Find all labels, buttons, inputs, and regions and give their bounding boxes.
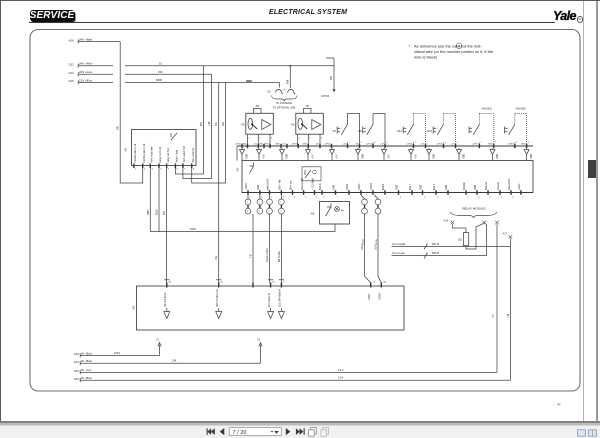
svg-text:2/10: 2/10 (74, 369, 80, 373)
svg-text:Coil/line wire 2-18: Coil/line wire 2-18 (143, 143, 146, 163)
svg-text:Coil/line wire 2-18: Coil/line wire 2-18 (134, 143, 137, 163)
svg-text:CAN L: CAN L (358, 183, 361, 190)
svg-text:2: 2 (427, 142, 429, 144)
svg-text:20: 20 (221, 282, 224, 284)
terminal pair at 259.9 (257, 195, 263, 214)
pins row1 (235, 144, 527, 149)
svg-text:+UF18: +UF18 (507, 144, 514, 146)
svg-text:2T: 2T (373, 282, 376, 284)
pins row2 labels (246, 178, 521, 190)
svg-text:+5V: +5V (263, 154, 265, 159)
border frame (30, 30, 580, 392)
svg-text:30d: 30d (216, 121, 218, 126)
svg-text:4: 4 (528, 142, 530, 144)
svg-text:4/16: 4/16 (74, 377, 80, 381)
svg-text:+24 M: +24 M (246, 183, 248, 190)
svg-text:CR7 Lift block: CR7 Lift block (164, 292, 167, 307)
node 12V +Enc (69, 78, 114, 84)
pin A3 30 (164, 280, 172, 307)
svg-text:4: 4 (294, 197, 296, 199)
svg-text:1: 1 (350, 197, 352, 199)
svg-text:6808: 6808 (246, 79, 252, 83)
svg-text:+5V: +5V (315, 144, 319, 146)
svg-text:163 A: 163 A (375, 239, 378, 245)
switch Y2 (504, 106, 526, 146)
svg-text:1: 1 (135, 169, 137, 171)
svg-text:70E: 70E (216, 255, 218, 260)
svg-text:Batt B: Batt B (382, 183, 385, 190)
svg-text:X: X (458, 44, 460, 48)
svg-text:+UF14: +UF14 (366, 144, 373, 146)
terminal pair CAN at 378 (375, 195, 381, 245)
svg-text:GND: GND (497, 153, 499, 158)
wire output bus row2 (242, 192, 533, 194)
buffer amp at 492.5 (490, 148, 499, 160)
svg-text:7: 7 (271, 197, 273, 199)
switch module A4 (310, 202, 350, 225)
svg-text:4: 4 (478, 197, 480, 199)
svg-text:Batt 2: Batt 2 (433, 183, 436, 190)
svg-text:+ 2-18 [bat]: + 2-18 [bat] (312, 178, 315, 190)
wire rev drop to A1 pin6 (175, 66, 203, 174)
svg-text:54B0: 54B0 (148, 209, 150, 215)
contactor S6 (290, 113, 323, 134)
wire CR7 lift block (252, 214, 254, 283)
svg-text:Mtr (rev42): Mtr (rev42) (278, 251, 281, 262)
svg-text:1: 1 (501, 197, 503, 199)
svg-text:-A2: -A2 (236, 167, 240, 172)
svg-text:GND: GND (475, 185, 477, 190)
wire mtr return (280, 214, 282, 283)
svg-text:7: 7 (184, 169, 186, 171)
pin A3 2A (379, 281, 387, 301)
svg-text:batt/out NC: batt/out NC (508, 178, 511, 190)
svg-text:7: 7 (337, 197, 339, 199)
pin A3 16 (268, 280, 276, 307)
svg-text:Horn +batt wire: Horn +batt wire (151, 146, 154, 163)
svg-text:2: 2 (268, 211, 270, 213)
svg-text:4: 4 (261, 197, 263, 199)
wire CAN L (365, 214, 371, 283)
contactor S5 (240, 113, 273, 134)
svg-text:vidual wire (or the number pri: vidual wire (or the number printed on it… (414, 49, 494, 54)
switch S7 (332, 113, 360, 146)
svg-text:-S8: -S8 (357, 129, 362, 133)
svg-text:7: 7 (449, 197, 451, 199)
svg-text:24C: 24C (118, 125, 120, 130)
svg-text:7: 7 (374, 197, 376, 199)
buffer amp at 429 (427, 148, 436, 160)
svg-text:+5V: +5V (451, 144, 455, 146)
wire 6808 (125, 78, 279, 88)
svg-text:+UF13: +UF13 (324, 144, 331, 146)
svg-text:+24 in: +24 in (519, 183, 521, 190)
switch Y1 (469, 106, 494, 146)
svg-text:30E: 30E (223, 121, 225, 126)
svg-text:15C: 15C (158, 70, 163, 74)
wire bus to battery minus (batt) (510, 239, 512, 380)
svg-text:Batt In: Batt In (319, 183, 322, 190)
svg-text:4: 4 (400, 197, 402, 199)
svg-text:batt/out NC: batt/out NC (267, 178, 270, 190)
pins S6 (298, 134, 324, 146)
output driver at 281.4 (278, 308, 284, 319)
svg-text:D12 CR4+Batt lift: D12 CR4+Batt lift (279, 289, 282, 307)
wire A1 pin5 to A3 (D30) (166, 168, 168, 283)
svg-text:m: m (256, 104, 259, 108)
svg-text:6808: 6808 (156, 78, 162, 82)
pins A1 (134, 164, 195, 171)
svg-text:GND: GND (531, 153, 533, 158)
svg-text:4/16: 4/16 (69, 79, 75, 83)
svg-text:CAN H: CAN H (370, 183, 373, 190)
svg-text:GND: GND (334, 185, 336, 190)
svg-text:1: 1 (280, 202, 282, 204)
svg-text:GND: GND (362, 153, 364, 158)
svg-text:-S6: -S6 (290, 123, 295, 127)
connector X2 to console (267, 89, 296, 94)
svg-text:0V -Batt: 0V -Batt (81, 376, 92, 380)
svg-text:GND: GND (397, 185, 399, 190)
svg-text:19-C: 19-C (338, 368, 344, 372)
svg-text:CR8 Throttle lock: CR8 Throttle lock (216, 288, 219, 307)
svg-text:3: 3 (152, 169, 154, 171)
svg-text:+5V: +5V (388, 154, 390, 159)
svg-text:2: 2 (259, 138, 261, 140)
svg-text:Relay + batt: Relay + batt (176, 150, 179, 163)
svg-text:CR8 + Mtr: CR8 + Mtr (279, 179, 282, 190)
svg-text:Horn switch NO: Horn switch NO (183, 146, 186, 163)
svg-text:2/12: 2/12 (74, 360, 80, 364)
wire drop to console hook2 (289, 66, 291, 88)
svg-text:4/16: 4/16 (74, 352, 80, 356)
wire Com High (392, 242, 511, 250)
brace console (272, 96, 298, 102)
svg-text:*: * (409, 44, 411, 49)
svg-text:0V -Aux: 0V -Aux (81, 368, 92, 372)
svg-text:+UF17: +UF17 (472, 144, 479, 146)
connector C2 riser (257, 339, 262, 364)
terminal pair at 248 (245, 195, 251, 214)
svg-text:2/12: 2/12 (69, 71, 75, 75)
svg-text:16: 16 (272, 282, 275, 284)
wire aux drop to A1 pin7 (183, 74, 212, 178)
svg-text:+UF11: +UF11 (263, 144, 270, 146)
svg-text:2: 2 (144, 169, 146, 171)
wire 15C (125, 70, 212, 75)
wire Com Low rise (484, 223, 486, 256)
svg-text:Horn +batt sw: Horn +batt sw (192, 148, 195, 163)
svg-text:-A3: -A3 (132, 305, 136, 310)
svg-text:CAN H: CAN H (379, 293, 382, 300)
svg-text:12V +Enc: 12V +Enc (79, 78, 93, 82)
svg-text:Com High: Com High (392, 242, 406, 246)
svg-text:0V -Batt: 0V -Batt (81, 351, 92, 355)
svg-text:13-4: 13-4 (338, 376, 344, 380)
svg-text:+5V: +5V (380, 144, 384, 146)
svg-text:+5V: +5V (312, 154, 314, 159)
buffer amp at 242 (240, 148, 249, 160)
svg-text:Relay out B-A: Relay out B-A (167, 148, 170, 163)
svg-text:+UF12: +UF12 (291, 144, 298, 146)
svg-text:166 A: 166 A (362, 239, 365, 245)
svg-text:3: 3 (516, 142, 518, 144)
svg-text:1: 1 (249, 138, 251, 140)
svg-text:7 / 20: 7 / 20 (233, 430, 247, 436)
node 0V -Batt (4) (74, 376, 511, 382)
buffer amp at 384 (382, 148, 391, 160)
svg-text:+5V: +5V (253, 144, 257, 146)
svg-text:1: 1 (249, 197, 251, 199)
output driver at 218.7 (216, 308, 222, 319)
svg-text:1: 1 (316, 197, 318, 199)
svg-text:1: 1 (386, 197, 388, 199)
svg-text:VALVES: VALVES (482, 106, 492, 110)
svg-text:1: 1 (481, 142, 483, 144)
svg-text:2A: 2A (383, 281, 386, 284)
buffer amp at 282 (280, 148, 289, 160)
svg-text:-X2: -X2 (267, 90, 272, 94)
svg-text:0B: 0B (356, 144, 359, 146)
svg-text:3: 3 (374, 142, 376, 144)
svg-text:GND: GND (421, 185, 423, 190)
svg-text:UPS B: UPS B (321, 94, 329, 98)
svg-text:1: 1 (259, 202, 261, 204)
svg-text:5: 5 (168, 169, 170, 171)
svg-text:10: 10 (159, 61, 162, 65)
wire input bus row1 (237, 145, 533, 147)
svg-text:2: 2 (361, 142, 363, 144)
svg-text:6: 6 (177, 169, 179, 171)
switch S13 (426, 113, 455, 146)
note: wire colour reference (409, 43, 494, 59)
svg-text:7: 7 (522, 197, 524, 199)
svg-text:3: 3 (445, 142, 447, 144)
svg-text:-X17: -X17 (502, 233, 508, 236)
svg-text:CAN L: CAN L (368, 293, 371, 300)
junctions row1 (247, 142, 530, 147)
svg-text:1: 1 (467, 197, 469, 199)
node UPS B probe (321, 58, 336, 98)
svg-text:+5V: +5V (282, 144, 286, 146)
node 0V -Batt (1) (74, 351, 160, 357)
wire enc drop (30d) (218, 83, 220, 284)
svg-text:24V +Aux: 24V +Aux (79, 70, 93, 74)
svg-text:+5V: +5V (336, 154, 338, 159)
svg-text:SPARE: SPARE (463, 182, 466, 190)
svg-text:Ag: Ag (341, 209, 344, 212)
node 24V +Batt (69, 37, 121, 43)
svg-text:7: 7 (413, 197, 415, 199)
pins S5 (248, 134, 274, 146)
svg-text:1: 1 (283, 197, 285, 199)
node 24V +Rev (69, 62, 114, 68)
wire 54B0 (149, 168, 151, 232)
svg-text:1 Bk: 1 Bk (209, 121, 211, 126)
terminal pair at 281.4 (279, 195, 285, 214)
connector X17 pin (502, 233, 512, 239)
svg-text:3: 3 (321, 138, 323, 140)
wire Com Low (392, 251, 487, 259)
svg-text:4: 4 (160, 169, 162, 171)
output driver at 166.8 (164, 308, 170, 319)
buffer amp at 526.6 (524, 148, 533, 160)
svg-text:Batt/out: Batt/out (485, 182, 488, 190)
svg-text:-S7: -S7 (332, 129, 337, 133)
svg-text:C1: C1 (156, 339, 160, 342)
motor m above S6 (304, 104, 312, 113)
svg-text:4/16: 4/16 (69, 38, 75, 42)
svg-text:GND: GND (433, 153, 435, 158)
svg-text:24V +Batt: 24V +Batt (79, 37, 92, 41)
svg-text:2: 2 (247, 211, 249, 213)
svg-text:9: 9 (283, 282, 285, 284)
svg-text:+5V: +5V (415, 154, 417, 159)
motor m above S5 (254, 104, 262, 113)
svg-text:2: 2 (495, 142, 497, 144)
svg-text:6D1: 6D1 (201, 121, 203, 126)
svg-text:901-B: 901-B (432, 242, 439, 246)
svg-text:D10 Safety in: D10 Safety in (268, 292, 271, 307)
svg-text:302: 302 (458, 239, 463, 242)
svg-text:1: 1 (299, 138, 301, 140)
svg-text:GND: GND (258, 185, 260, 190)
svg-text:Batt 1: Batt 1 (409, 183, 412, 190)
svg-text:1-M: 1-M (508, 314, 510, 318)
svg-text:7-B: 7-B (251, 254, 253, 258)
svg-text:163 A: 163 A (375, 244, 378, 250)
wire bus to battery minus (aux) (496, 224, 498, 372)
controller A3 (132, 286, 405, 330)
wire A1 pin8 (30E) (192, 83, 226, 184)
pin A3 9 (279, 280, 286, 307)
svg-text:GND: GND (463, 153, 465, 158)
svg-text:m: m (306, 104, 309, 108)
svg-text:1: 1 (424, 197, 426, 199)
svg-text:-S5: -S5 (240, 123, 245, 127)
svg-text:of the indi-: of the indi- (463, 43, 482, 48)
svg-text:batt/out NO: batt/out NO (301, 178, 304, 190)
svg-text:5404: 5404 (190, 227, 196, 231)
svg-text:8: 8 (193, 169, 195, 171)
wire B22A (158, 168, 160, 232)
buffer amp at 459 (457, 148, 466, 160)
svg-text:+5V: +5V (421, 144, 425, 146)
svg-text:11a: 11a (493, 314, 495, 318)
svg-text:4c: 4c (557, 403, 561, 407)
svg-text:B-M: B-M (288, 80, 290, 84)
svg-text:-S12: -S12 (396, 129, 402, 133)
svg-text:7: 7 (489, 197, 491, 199)
terminal pair CAN at 364.5 (361, 195, 367, 245)
connector X16 pins (443, 220, 499, 225)
svg-text:Chassis: Chassis (498, 181, 500, 190)
wire safety switch (269, 214, 271, 283)
svg-text:+UF15: +UF15 (406, 144, 413, 146)
svg-text:166 A: 166 A (361, 244, 364, 250)
svg-text:shield: shield (347, 183, 349, 190)
svg-text:GND: GND (242, 144, 247, 146)
svg-text:1: 1 (415, 142, 417, 144)
buffer amp at 358 (356, 148, 365, 160)
node 0V -Batt (2) (74, 359, 261, 365)
svg-text:C2: C2 (257, 339, 261, 342)
controller A1 (124, 130, 197, 166)
wire 5404 (150, 224, 335, 232)
buffer amp at 259 (257, 148, 266, 160)
buffer amp at 332 (330, 148, 339, 160)
wire 24V+Batt to A1 pin1 (120, 42, 143, 183)
svg-text:-S13: -S13 (426, 129, 432, 133)
terminal pair at 269.5 (267, 195, 273, 214)
svg-text:2/12: 2/12 (69, 63, 75, 67)
svg-text:Com Low: Com Low (392, 251, 406, 255)
svg-text:3: 3 (271, 138, 273, 140)
buffer amp at 411 (409, 148, 418, 160)
svg-text:1: 1 (268, 202, 270, 204)
svg-text:wire is black): wire is black) (414, 54, 438, 59)
wire CAN H (378, 214, 381, 283)
output driver at 270.6 (268, 308, 274, 319)
svg-text:+UF16: +UF16 (436, 144, 443, 146)
node 0V -Aux (74, 368, 497, 374)
svg-text:+5V: +5V (343, 144, 347, 146)
svg-text:GND: GND (446, 185, 448, 190)
svg-text:Drive out: Drive out (290, 180, 293, 190)
svg-text:-A1: -A1 (124, 147, 128, 152)
svg-text:RELAY MODULE: RELAY MODULE (462, 207, 485, 211)
svg-text:+UF10: +UF10 (235, 144, 242, 146)
svg-text:GND: GND (521, 144, 526, 146)
svg-text:4: 4 (457, 142, 459, 144)
svg-text:2: 2 (309, 138, 311, 140)
controller A2 (236, 161, 534, 193)
svg-text:Safety switch: Safety switch (266, 248, 269, 262)
svg-text:GND: GND (303, 144, 308, 146)
node 24V +Aux (69, 70, 114, 76)
svg-text:4: 4 (323, 197, 325, 199)
svg-text:4: 4 (512, 197, 514, 199)
buffer amp at 308 (306, 148, 315, 160)
svg-text:-X16: -X16 (443, 220, 449, 223)
svg-text:GND: GND (246, 153, 248, 158)
wire 10 (125, 61, 334, 66)
pins row2 ticks (248, 190, 524, 199)
svg-text:4: 4 (437, 197, 439, 199)
svg-text:GND: GND (286, 153, 288, 158)
resistor R1 terminator (453, 223, 485, 249)
svg-text:24V +Rev: 24V +Rev (79, 62, 93, 66)
svg-text:-A4: -A4 (310, 212, 315, 216)
svg-text:B22A: B22A (156, 209, 159, 215)
svg-text:30: 30 (169, 282, 172, 284)
svg-text:D30: D30 (164, 210, 166, 215)
svg-text:1: 1 (349, 142, 351, 144)
pin A3 2T (368, 282, 376, 301)
svg-text:902-B: 902-B (432, 251, 439, 255)
svg-text:1: 1 (247, 202, 249, 204)
switch S8 (357, 113, 385, 146)
svg-text:1004: 1004 (114, 351, 120, 355)
svg-text:4: 4 (386, 142, 388, 144)
svg-text:TO CONSOLE: TO CONSOLE (276, 102, 293, 105)
svg-text:VALVES: VALVES (516, 106, 526, 110)
svg-text:2: 2 (280, 211, 282, 213)
svg-text:7: 7 (305, 197, 307, 199)
connector C1 riser (156, 339, 161, 356)
svg-text:0V -Batt: 0V -Batt (81, 359, 92, 363)
svg-text:GND: GND (488, 144, 493, 146)
